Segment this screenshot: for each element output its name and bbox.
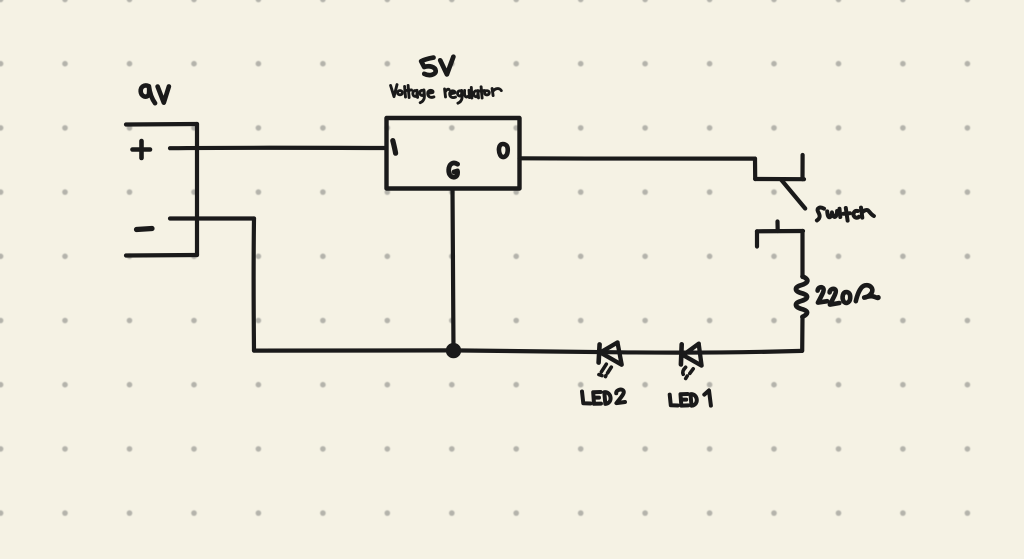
label Switch (817, 208, 874, 221)
voltage regulator U1 body (387, 118, 520, 189)
wire bottom rail (254, 350, 802, 352)
pin label G ground (449, 163, 458, 177)
battery B1 9V outline (126, 124, 197, 256)
wire left vertical drop (252, 219, 257, 351)
battery plus terminal symbol (133, 141, 151, 158)
LED D1 symbol (681, 344, 702, 366)
label Voltage regulator (391, 85, 502, 104)
wire regulator output to switch (520, 156, 756, 161)
LED D2 symbol (599, 342, 622, 364)
switch S1 top contact (755, 155, 804, 179)
LED D1 emission arrows (683, 367, 693, 378)
label 9V (141, 85, 169, 103)
battery minus terminal symbol (137, 229, 153, 230)
label 5V (421, 57, 453, 75)
switch S1 blade (open) (781, 180, 805, 209)
pin label 0 output (499, 144, 508, 157)
wire resistor to bottom rail corner (800, 317, 804, 351)
resistor R1 zigzag (796, 276, 807, 317)
node junction dot at G / bottom rail (448, 345, 459, 356)
pin label 1 input (393, 141, 396, 154)
label LED 2 (582, 390, 625, 404)
label LED1 (670, 390, 711, 405)
wire battery minus horizontal (170, 216, 254, 220)
label 220 ohm value (818, 285, 879, 304)
wire battery plus to regulator input (170, 146, 386, 151)
LED D2 emission arrows (599, 364, 611, 376)
wire regulator G pin to bottom rail junction (453, 189, 454, 351)
switch S1 bottom contact (757, 222, 803, 278)
